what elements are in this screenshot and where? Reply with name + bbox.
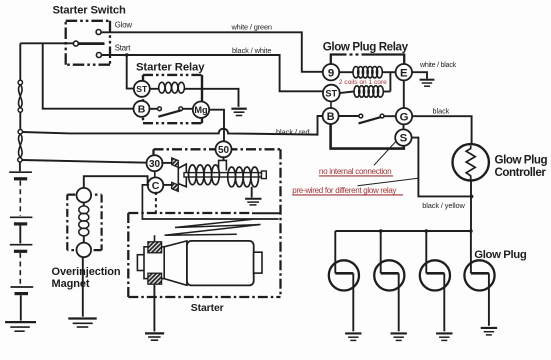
svg-text:30: 30 [149, 159, 161, 170]
svg-text:2 coils on 1 core: 2 coils on 1 core [339, 79, 387, 86]
svg-text:ST: ST [136, 84, 148, 94]
svg-text:Glow Plug: Glow Plug [495, 153, 548, 166]
svg-text:white / green: white / green [231, 23, 272, 32]
svg-text:Glow: Glow [115, 20, 133, 29]
svg-text:ST: ST [325, 88, 337, 98]
svg-text:Overinjection: Overinjection [52, 266, 121, 278]
svg-text:black / red: black / red [276, 128, 310, 137]
svg-text:E: E [400, 67, 408, 79]
svg-text:9: 9 [328, 67, 334, 79]
svg-text:Glow Plug Relay: Glow Plug Relay [323, 40, 409, 53]
svg-text:S: S [400, 133, 408, 145]
svg-text:Magnet: Magnet [52, 278, 90, 290]
svg-text:B: B [138, 104, 146, 116]
svg-text:Glow Plug: Glow Plug [474, 249, 527, 261]
svg-text:white / black: white / black [419, 62, 457, 69]
svg-text:black: black [433, 107, 450, 116]
svg-text:black / yellow: black / yellow [422, 201, 465, 210]
svg-text:Controller: Controller [495, 166, 547, 179]
svg-text:Start: Start [115, 44, 131, 53]
svg-text:no internal connection: no internal connection [319, 167, 392, 176]
svg-text:black / white: black / white [232, 46, 271, 55]
svg-text:Starter: Starter [191, 303, 224, 314]
svg-text:Mg: Mg [194, 105, 207, 115]
svg-text:Starter Switch: Starter Switch [53, 5, 126, 17]
svg-text:pre-wired for different glow r: pre-wired for different glow relay [292, 186, 396, 195]
svg-text:C: C [152, 180, 160, 192]
svg-text:G: G [400, 111, 409, 123]
svg-text:B: B [327, 111, 335, 123]
svg-text:50: 50 [218, 145, 230, 156]
svg-text:Starter Relay: Starter Relay [136, 62, 205, 74]
